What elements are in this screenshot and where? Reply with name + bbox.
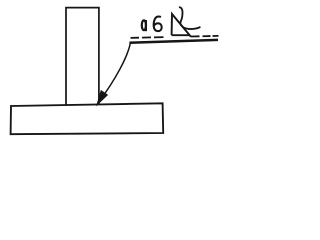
digit 6 — [154, 16, 162, 31]
label a6 — [142, 16, 162, 31]
reference line — [129, 40, 218, 43]
contour curve on weld symbol — [180, 7, 200, 29]
identification dashed line — [131, 36, 219, 38]
arrow line — [98, 43, 131, 104]
letter a — [142, 20, 146, 30]
base plate — [11, 103, 164, 134]
arrowhead — [97, 91, 107, 105]
fillet weld symbol triangle — [172, 14, 191, 37]
vertical plate — [66, 8, 99, 105]
